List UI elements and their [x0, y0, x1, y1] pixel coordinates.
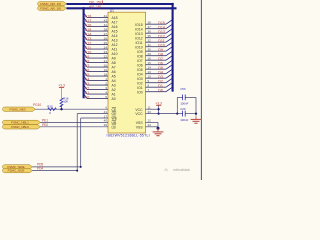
svg-text:A7: A7 — [85, 64, 90, 68]
wire A7 + bus entry — [84, 63, 87, 67]
port FSMC_NBL0 — [2, 125, 40, 129]
svg-text:IO6: IO6 — [137, 63, 143, 67]
wire A13 + bus entry — [84, 36, 87, 40]
power +3.3 (pull-up) — [59, 86, 64, 88]
svg-text:D9: D9 — [158, 48, 163, 52]
svg-text:D11: D11 — [158, 39, 165, 43]
svg-text:IO14: IO14 — [135, 27, 142, 31]
svg-text:A11: A11 — [85, 46, 91, 50]
wire D3 + bus entry — [146, 77, 167, 79]
svg-text:IO4: IO4 — [137, 72, 143, 76]
svg-text:C20: C20 — [180, 107, 186, 111]
svg-text:10K: 10K — [63, 100, 68, 104]
svg-text:A9: A9 — [112, 57, 116, 61]
svg-text:A17: A17 — [112, 21, 118, 25]
svg-text:44: 44 — [104, 14, 108, 18]
svg-text:27: 27 — [104, 32, 108, 36]
svg-text:C50: C50 — [180, 87, 186, 91]
svg-text:OE: OE — [112, 112, 118, 116]
svg-text:D15: D15 — [158, 21, 165, 25]
svg-text:28: 28 — [104, 27, 108, 31]
wire D6 + bus entry — [146, 64, 167, 66]
wire D15 + bus entry — [146, 23, 167, 25]
wire A1 + bus entry — [84, 90, 87, 94]
svg-text:D6: D6 — [158, 61, 163, 65]
svg-text:A4: A4 — [112, 79, 116, 83]
svg-text:IO8: IO8 — [137, 54, 143, 58]
svg-text:FSMC_NBL0: FSMC_NBL0 — [11, 125, 29, 129]
svg-text:36: 36 — [148, 30, 152, 34]
wire PE0 to LB — [41, 126, 109, 128]
svg-text:A5: A5 — [112, 75, 116, 79]
svg-text:14: 14 — [148, 66, 152, 70]
svg-text:A2: A2 — [112, 88, 116, 92]
wire A4 + bus entry — [84, 76, 87, 80]
port FSMC_NWE — [2, 165, 32, 169]
svg-text:A11: A11 — [112, 48, 118, 52]
svg-text:A16: A16 — [112, 25, 118, 29]
wire D13 + bus entry — [146, 32, 167, 34]
ground (VSS) — [157, 128, 159, 132]
svg-text:WE: WE — [112, 117, 118, 121]
svg-text:31: 31 — [148, 43, 152, 47]
wire A8 + bus entry — [84, 58, 87, 62]
svg-text:A3: A3 — [112, 84, 116, 88]
svg-text:D1: D1 — [158, 84, 163, 88]
port FSMC_A[0..18] — [38, 6, 67, 10]
svg-text:VSS: VSS — [136, 121, 144, 125]
svg-text:13: 13 — [148, 70, 152, 74]
svg-text:A1: A1 — [112, 93, 116, 97]
svg-text:D0: D0 — [158, 88, 163, 92]
junction NOE corner — [76, 170, 78, 172]
svg-text:35: 35 — [148, 34, 152, 38]
svg-text:CE: CE — [112, 108, 117, 112]
svg-text:IO13: IO13 — [135, 32, 142, 36]
svg-text:A12: A12 — [112, 43, 118, 47]
wire D9 + bus entry — [146, 50, 167, 52]
svg-text:A4: A4 — [85, 77, 90, 81]
wire WE pin to FSMC_NWE (down at x=80.7) — [81, 117, 108, 119]
junction ring/GND — [195, 113, 197, 115]
svg-text:IO3: IO3 — [137, 77, 143, 81]
wire A5 + bus entry — [84, 72, 87, 76]
port FSMC_NOE — [2, 168, 32, 172]
svg-text:A6: A6 — [112, 70, 116, 74]
svg-text:D13: D13 — [158, 30, 165, 34]
svg-text:A13: A13 — [85, 37, 92, 41]
svg-text:15: 15 — [148, 61, 152, 65]
svg-text:IO9: IO9 — [137, 50, 143, 54]
wire D14 + bus entry — [146, 28, 167, 30]
svg-text:IS62WV51216BLL-55TLI: IS62WV51216BLL-55TLI — [107, 134, 150, 138]
svg-text:PE0: PE0 — [42, 123, 48, 127]
junction CS/R16 — [60, 108, 62, 110]
svg-text:LB: LB — [112, 125, 117, 129]
wire A6 + bus entry — [84, 67, 87, 71]
wire D4 + bus entry — [146, 73, 167, 75]
svg-text:A15: A15 — [85, 28, 92, 32]
svg-text:FSMC_D[0..15]: FSMC_D[0..15] — [40, 2, 61, 6]
svg-text:A3: A3 — [85, 82, 90, 86]
svg-text:A7: A7 — [112, 66, 116, 70]
svg-text:FSMC_NBL1: FSMC_NBL1 — [11, 121, 29, 125]
bus D[0..15] — [67, 4, 173, 92]
svg-text:32: 32 — [148, 39, 152, 43]
bus junction at D bus corner — [171, 3, 173, 5]
svg-text:A6: A6 — [85, 68, 90, 72]
svg-text:16: 16 — [148, 57, 152, 61]
wire A16 + bus entry — [84, 22, 87, 26]
svg-text:D4: D4 — [158, 70, 163, 74]
svg-text:A8: A8 — [85, 59, 90, 63]
wire A14 + bus entry — [84, 31, 87, 35]
svg-text:U1: U1 — [110, 9, 114, 13]
port FSMC_NE3 — [2, 107, 35, 111]
svg-text:D5: D5 — [158, 66, 163, 70]
wire D5 + bus entry — [146, 68, 167, 70]
svg-text:D14: D14 — [158, 25, 165, 29]
svg-text:IO11: IO11 — [135, 41, 142, 45]
svg-text:IO10: IO10 — [135, 45, 142, 49]
wire A3 + bus entry — [84, 81, 87, 85]
svg-text:A13: A13 — [112, 39, 118, 43]
svg-text:IO7: IO7 — [137, 59, 143, 63]
svg-text:43: 43 — [104, 18, 108, 22]
svg-text:D2: D2 — [158, 79, 163, 83]
port FSMC_NBL1 — [2, 120, 40, 124]
svg-text:10: 10 — [148, 75, 152, 79]
wire OE pin to FSMC_NOE (down at x=77.2) — [77, 113, 108, 115]
bus junction A bus tee — [82, 7, 84, 9]
svg-text:A14: A14 — [85, 32, 92, 36]
junction VSS — [157, 127, 160, 130]
wire D2 + bus entry — [146, 82, 167, 84]
svg-text:+3.3: +3.3 — [58, 83, 65, 87]
svg-text:21: 21 — [104, 59, 108, 63]
wire D12 + bus entry — [146, 37, 167, 39]
svg-text:edircsitdab: edircsitdab — [173, 168, 190, 172]
resistor R16 10K (pull-up on CS) — [60, 98, 63, 107]
svg-text:A14: A14 — [112, 34, 118, 38]
svg-text:+3.3: +3.3 — [155, 101, 162, 105]
svg-text:22: 22 — [104, 54, 108, 58]
wire cap ring left vertical (VCC) — [176, 97, 178, 113]
svg-text:A10: A10 — [112, 52, 118, 56]
svg-text:19: 19 — [104, 68, 108, 72]
svg-text:FSMC_A[0..18]: FSMC_A[0..18] — [40, 6, 61, 10]
svg-text:100nF: 100nF — [180, 102, 188, 106]
junction NWE corner — [80, 166, 82, 168]
junction VCC1 — [158, 108, 160, 110]
svg-text:√λ: √λ — [164, 168, 168, 172]
svg-text:FSMC_NE3: FSMC_NE3 — [9, 107, 25, 111]
capacitor C20 100nF — [177, 113, 182, 115]
SRAM U1 IS62WV51216BLL body — [108, 12, 146, 133]
svg-text:A1: A1 — [85, 91, 90, 95]
wire A10 + bus entry — [84, 49, 87, 53]
wire A9 + bus entry — [84, 54, 87, 58]
svg-text:20: 20 — [104, 63, 108, 67]
wire D7 + bus entry — [146, 59, 167, 61]
svg-text:A9: A9 — [85, 55, 90, 59]
svg-text:PD4: PD4 — [37, 167, 43, 171]
wire A12 + bus entry — [84, 40, 87, 44]
wire D10 + bus entry — [146, 46, 167, 48]
svg-text:D7: D7 — [158, 57, 163, 61]
wire D0 + bus entry — [146, 91, 167, 93]
wire A2 + bus entry — [84, 85, 87, 89]
wire D11 + bus entry — [146, 41, 167, 43]
stray label tick — [101, 0, 103, 4]
wire A11 + bus entry — [84, 45, 87, 49]
svg-text:A17: A17 — [85, 19, 92, 23]
svg-text:IO1: IO1 — [137, 86, 143, 90]
svg-text:A18: A18 — [112, 16, 118, 20]
svg-text:A18: A18 — [85, 14, 92, 18]
svg-text:38: 38 — [148, 21, 152, 25]
ground (caps) — [195, 116, 197, 119]
svg-text:IO2: IO2 — [137, 81, 143, 85]
wire D8 + bus entry — [146, 55, 167, 57]
svg-text:IO15: IO15 — [135, 23, 142, 27]
svg-text:IO5: IO5 — [137, 68, 143, 72]
wire VCC to decoupling caps — [159, 113, 178, 115]
svg-text:D3: D3 — [158, 75, 163, 79]
svg-text:25: 25 — [104, 41, 108, 45]
svg-text:A5: A5 — [85, 73, 90, 77]
svg-text:D10: D10 — [158, 43, 165, 47]
wire D1 + bus entry — [146, 86, 167, 88]
wire +3.3 to R16 — [61, 87, 63, 98]
wire A18 + bus entry — [84, 13, 87, 17]
svg-text:18: 18 — [104, 72, 108, 76]
svg-text:37: 37 — [148, 25, 152, 29]
wire R16 to CS net — [61, 105, 63, 109]
port FSMC_D[0..15] — [38, 2, 67, 6]
wire A0 + bus entry — [84, 94, 87, 98]
svg-text:VCC: VCC — [135, 108, 143, 112]
svg-text:A2: A2 — [85, 86, 90, 90]
capacitor C50 100nF — [177, 96, 182, 98]
svg-text:26: 26 — [104, 36, 108, 40]
power +3.3 (VCC) — [156, 104, 161, 106]
svg-text:A[0..18]: A[0..18] — [89, 5, 101, 9]
svg-text:A0: A0 — [85, 95, 90, 99]
svg-text:UB: UB — [112, 121, 117, 125]
svg-text:VSS: VSS — [136, 125, 144, 129]
svg-text:A8: A8 — [112, 61, 116, 65]
svg-text:D[0..15]: D[0..15] — [89, 0, 101, 4]
svg-text:A0: A0 — [112, 97, 116, 101]
wire A15 + bus entry — [84, 27, 87, 31]
wire VCC pins to +3.3 — [146, 108, 159, 110]
svg-text:A16: A16 — [85, 23, 92, 27]
svg-text:100nF: 100nF — [180, 118, 188, 122]
svg-text:FSMC_NOE: FSMC_NOE — [8, 169, 25, 173]
svg-text:PG10: PG10 — [33, 103, 41, 107]
sheet border (right edge) — [200, 0, 202, 180]
svg-text:29: 29 — [148, 52, 152, 56]
svg-text:IO12: IO12 — [135, 36, 142, 40]
svg-text:30: 30 — [148, 48, 152, 52]
wire VSS pins to ground — [146, 121, 159, 123]
svg-text:A15: A15 — [112, 30, 118, 34]
junction VCC2 — [158, 113, 160, 115]
svg-text:D8: D8 — [158, 52, 163, 56]
svg-text:VCC: VCC — [135, 112, 143, 116]
svg-text:IO0: IO0 — [137, 90, 143, 94]
svg-text:D12: D12 — [158, 34, 165, 38]
wire FSMC_NE3 / PG10 to CS pin — [36, 108, 109, 110]
svg-text:23: 23 — [104, 50, 108, 54]
svg-text:42: 42 — [104, 23, 108, 27]
svg-text:PE1: PE1 — [42, 119, 48, 123]
svg-text:A10: A10 — [85, 50, 92, 54]
svg-text:24: 24 — [104, 45, 108, 49]
wire cap ring right vertical (GND) — [195, 97, 197, 115]
svg-text:A12: A12 — [85, 41, 92, 45]
junction ring/VCC — [176, 113, 178, 115]
bus A[0..18] — [67, 7, 177, 9]
wire PE1 to UB — [41, 121, 109, 123]
wire A17 + bus entry — [84, 18, 87, 22]
